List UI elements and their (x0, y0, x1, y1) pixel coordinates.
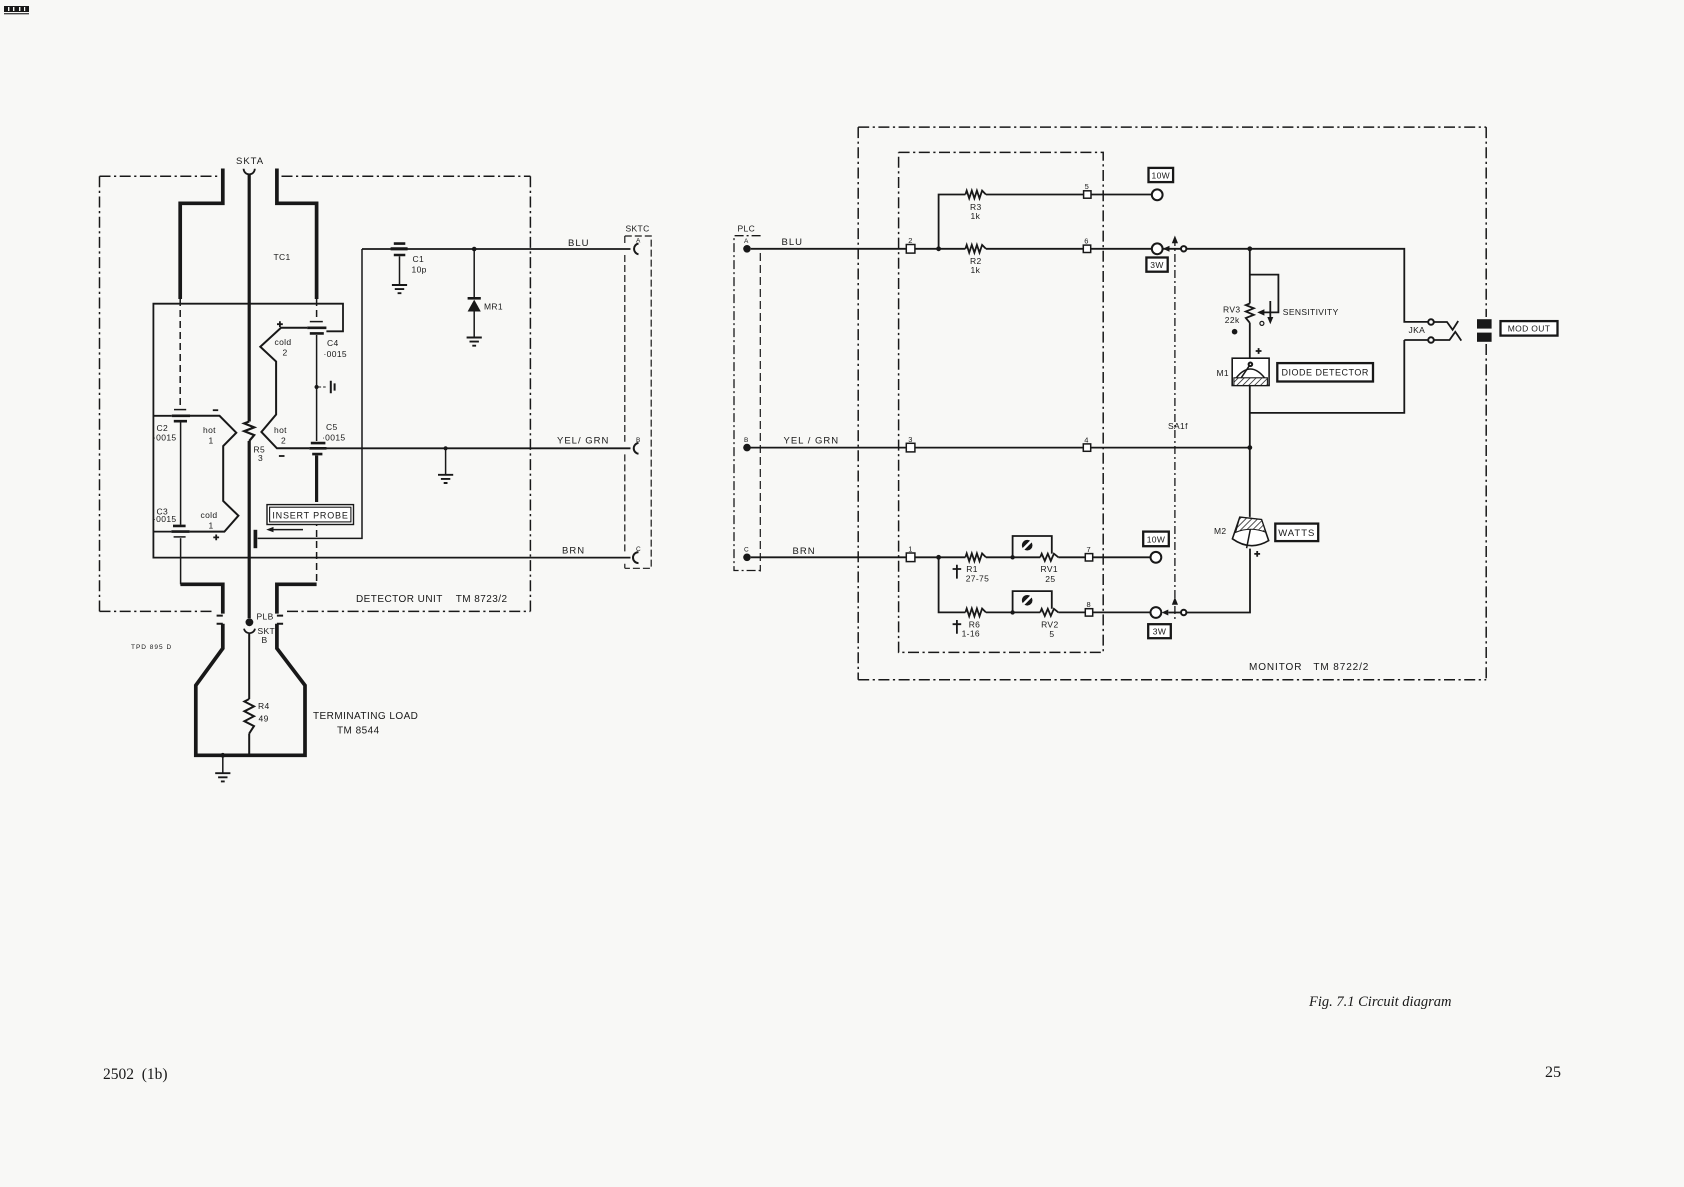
svg-text:YEL / GRN: YEL / GRN (784, 435, 840, 446)
svg-text:R4: R4 (258, 701, 270, 711)
svg-text:A: A (744, 238, 749, 245)
svg-text:SA1f: SA1f (1168, 421, 1188, 431)
svg-text:MONITOR TM 8722/2: MONITOR TM 8722/2 (1249, 662, 1369, 673)
svg-text:Fig. 7.1 Circuit diagram: Fig. 7.1 Circuit diagram (1308, 994, 1451, 1010)
svg-text:YEL/ GRN: YEL/ GRN (557, 436, 609, 447)
svg-text:M1: M1 (1217, 368, 1230, 378)
svg-text:C2: C2 (157, 423, 169, 433)
svg-text:MOD OUT: MOD OUT (1508, 324, 1551, 334)
svg-text:RV1: RV1 (1041, 564, 1058, 574)
svg-text:27-75: 27-75 (966, 573, 990, 583)
svg-text:1-16: 1-16 (962, 629, 980, 639)
svg-text:2: 2 (908, 236, 912, 245)
svg-text:10W: 10W (1147, 534, 1166, 544)
svg-text:·0015: ·0015 (153, 514, 177, 524)
svg-text:2: 2 (281, 436, 286, 446)
svg-text:TPD 895 D: TPD 895 D (131, 644, 172, 651)
svg-text:25: 25 (1545, 1064, 1561, 1081)
svg-text:TM 8544: TM 8544 (337, 726, 380, 737)
svg-text:cold: cold (275, 337, 292, 347)
svg-text:5: 5 (1085, 182, 1089, 191)
svg-text:hot: hot (274, 425, 287, 435)
svg-text:BLU: BLU (568, 238, 589, 249)
svg-text:10p: 10p (412, 265, 427, 275)
svg-text:1: 1 (209, 521, 214, 531)
svg-text:WATTS: WATTS (1278, 528, 1315, 539)
svg-text:3W: 3W (1153, 627, 1166, 637)
svg-text:BRN: BRN (793, 546, 816, 557)
svg-text:·0015: ·0015 (324, 349, 348, 359)
svg-text:7: 7 (1087, 545, 1091, 554)
svg-text:DIODE DETECTOR: DIODE DETECTOR (1282, 368, 1369, 378)
svg-text:TERMINATING LOAD: TERMINATING LOAD (313, 711, 418, 722)
svg-text:INSERT PROBE: INSERT PROBE (272, 510, 348, 520)
svg-text:1: 1 (908, 545, 912, 554)
svg-text:22k: 22k (1225, 315, 1240, 325)
svg-text:1k: 1k (971, 211, 981, 221)
svg-text:49: 49 (259, 714, 269, 724)
svg-text:SENSITIVITY: SENSITIVITY (1283, 307, 1339, 317)
svg-text:3: 3 (258, 453, 263, 463)
svg-text:10W: 10W (1152, 171, 1171, 181)
svg-text:RV2: RV2 (1041, 620, 1058, 630)
svg-text:C: C (744, 547, 749, 554)
svg-text:B: B (744, 437, 748, 444)
svg-text:B: B (262, 635, 268, 645)
svg-text:BLU: BLU (782, 237, 803, 248)
svg-text:2: 2 (283, 348, 288, 358)
svg-text:2502 (1b): 2502 (1b) (103, 1066, 168, 1083)
svg-text:M2: M2 (1214, 526, 1227, 536)
svg-text:SKTC: SKTC (626, 224, 650, 234)
svg-text:PLC: PLC (738, 224, 756, 234)
svg-text:R1: R1 (966, 564, 978, 574)
svg-text:1k: 1k (971, 265, 981, 275)
svg-text:C: C (636, 546, 641, 553)
svg-text:3: 3 (908, 435, 912, 444)
svg-text:C4: C4 (327, 338, 339, 348)
svg-text:JKA: JKA (1409, 325, 1426, 335)
svg-text:B: B (636, 437, 640, 444)
svg-text:DETECTOR UNIT TM 8723/2: DETECTOR UNIT TM 8723/2 (356, 594, 508, 605)
svg-text:6: 6 (1084, 237, 1088, 246)
svg-text:SKTA: SKTA (236, 156, 264, 167)
svg-text:5: 5 (1049, 629, 1054, 639)
svg-text:hot: hot (203, 425, 216, 435)
svg-text:RV3: RV3 (1223, 305, 1240, 315)
svg-text:BRN: BRN (562, 546, 585, 557)
svg-text:C5: C5 (326, 422, 338, 432)
svg-text:1: 1 (209, 436, 214, 446)
svg-text:4: 4 (1084, 435, 1088, 444)
svg-text:cold: cold (201, 510, 218, 520)
svg-text:3W: 3W (1150, 260, 1163, 270)
svg-text:8: 8 (1087, 600, 1091, 609)
svg-text:C1: C1 (413, 254, 425, 264)
svg-text:PLB: PLB (257, 612, 274, 622)
svg-text:·0015: ·0015 (153, 433, 177, 443)
svg-text:TC1: TC1 (274, 252, 291, 262)
svg-text:·0015: ·0015 (322, 433, 346, 443)
svg-text:25: 25 (1045, 574, 1055, 584)
svg-text:MR1: MR1 (484, 302, 503, 312)
svg-text:A: A (636, 237, 641, 244)
